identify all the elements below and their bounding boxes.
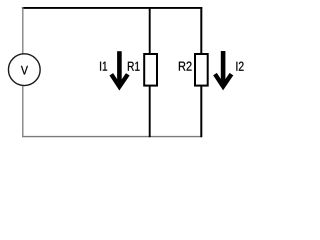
current label I2 bbox=[236, 62, 243, 71]
voltage source V circle bbox=[8, 54, 40, 86]
wire top horizontal bbox=[22, 7, 202, 9]
wire bottom horizontal bbox=[22, 136, 202, 138]
wire left vertical upper segment bbox=[22, 7, 24, 54]
current arrow I2 head bbox=[215, 74, 231, 86]
wire middle branch upper bbox=[149, 8, 151, 55]
wire right branch lower bbox=[200, 86, 202, 138]
resistor R1 label bbox=[128, 62, 140, 71]
resistor R2 rectangle bbox=[195, 54, 208, 86]
voltage source label V bbox=[21, 66, 28, 75]
current arrow I1 head bbox=[111, 74, 127, 86]
wire left vertical lower segment bbox=[22, 85, 24, 137]
resistor R2 label bbox=[179, 62, 192, 71]
current arrow I2 shaft bbox=[221, 51, 226, 84]
wire right branch upper bbox=[200, 8, 202, 55]
wire middle branch lower bbox=[149, 86, 151, 138]
current arrow I1 shaft bbox=[117, 51, 122, 84]
resistor R1 rectangle bbox=[144, 54, 157, 86]
current label I1 bbox=[100, 62, 107, 71]
